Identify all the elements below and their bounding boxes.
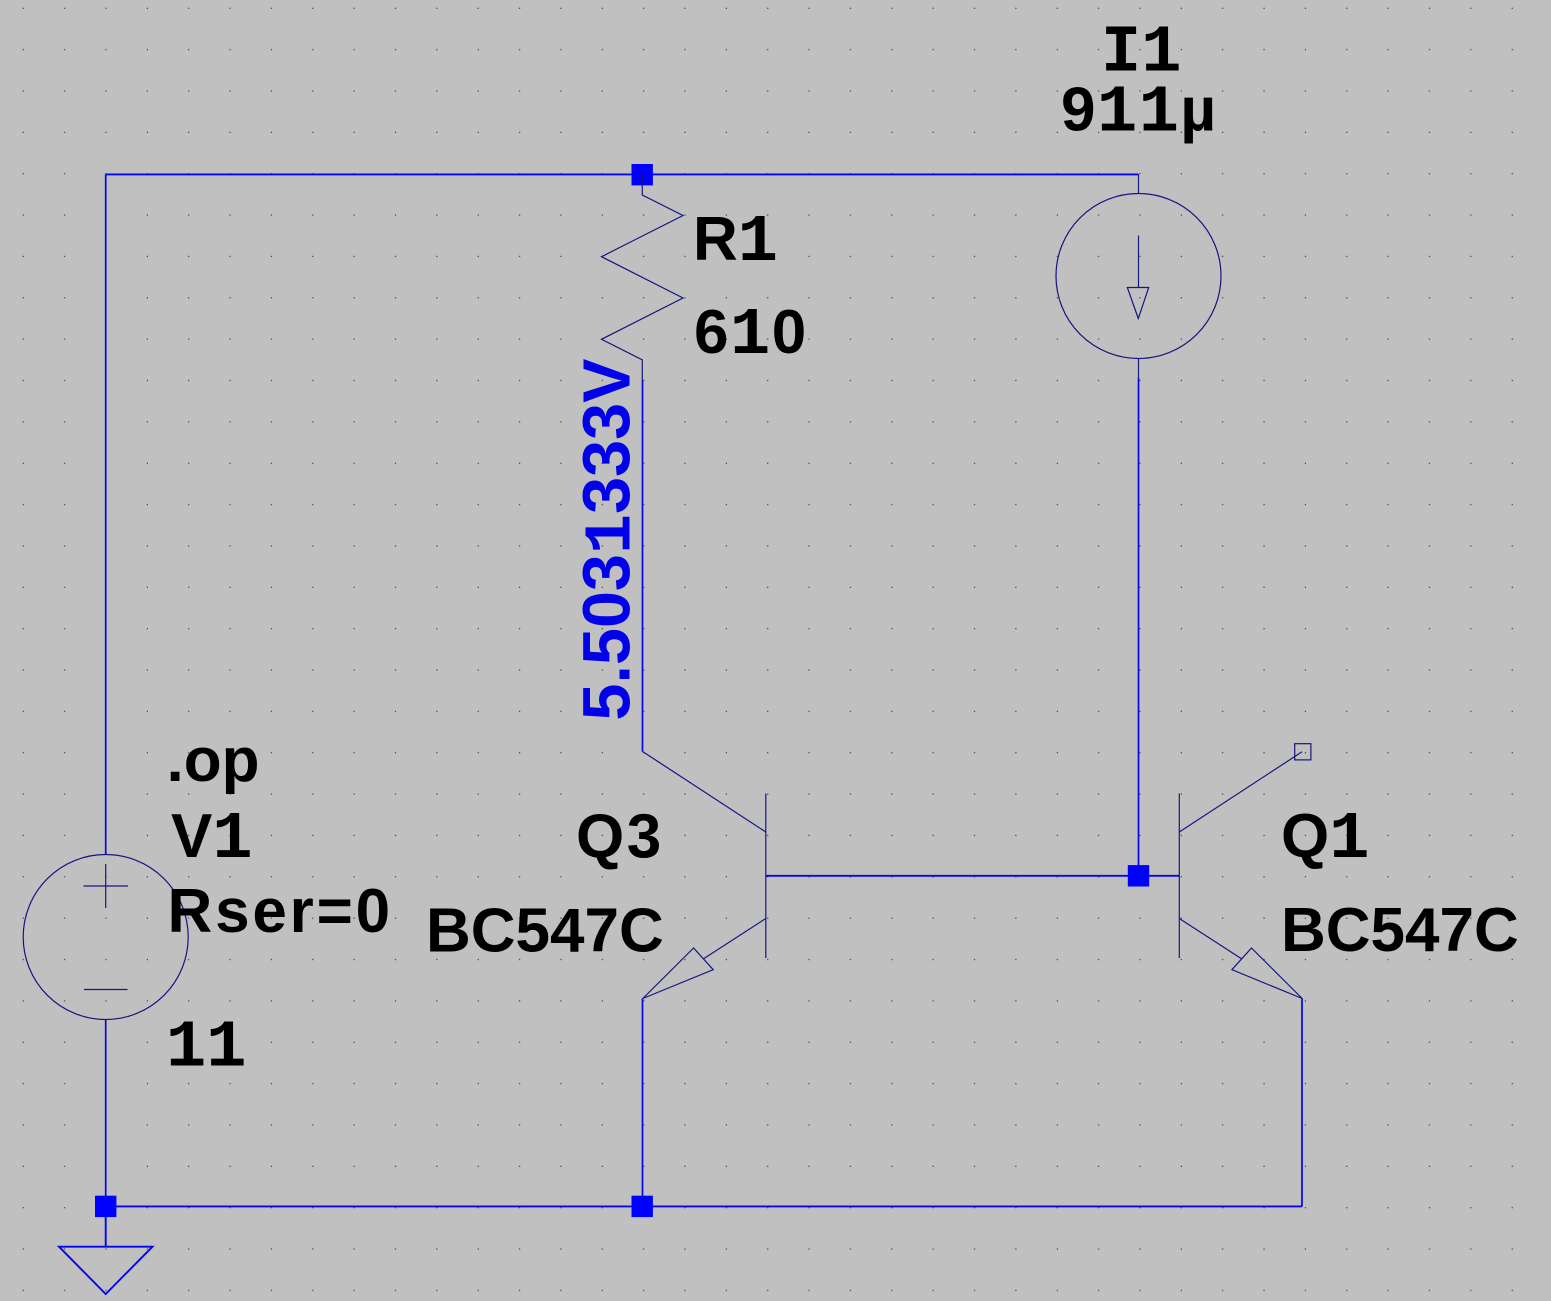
wire R1 bottom to Q3 collector: [642, 381, 644, 752]
svg-text:V1: V1: [171, 802, 253, 878]
wire Q3 emitter down: [642, 999, 644, 1207]
svg-text:Q3: Q3: [576, 803, 664, 872]
svg-text:.op: .op: [167, 726, 260, 795]
wire left vertical (to V1 top): [105, 174, 107, 854]
svg-text:BC547C: BC547C: [426, 897, 664, 966]
junction node: ground left: [95, 1196, 116, 1217]
svg-text:911µ: 911µ: [1061, 76, 1218, 152]
wire base rail Q3-Q1: [766, 875, 1180, 877]
wire bottom rail: [106, 1205, 1302, 1207]
junction node: top R1: [632, 164, 653, 185]
transistor Q3 (mirrored npn): [643, 752, 766, 999]
junction node: bottom Q3 emitter: [632, 1196, 653, 1217]
wire I1 bottom to base junction: [1138, 378, 1140, 876]
current source I1: [1056, 174, 1221, 377]
svg-text:Rser=0: Rser=0: [168, 877, 393, 946]
svg-text:5.5031333V: 5.5031333V: [571, 359, 651, 721]
resistor R1: [602, 174, 684, 380]
wire V1 bottom to ground: [105, 1020, 107, 1207]
voltage source V1: [23, 834, 188, 1040]
svg-text:11: 11: [166, 1011, 246, 1087]
svg-text:Q1: Q1: [1281, 802, 1369, 878]
wire top rail: [106, 173, 1139, 175]
transistor Q1 (npn): [1179, 744, 1311, 999]
ground: [59, 1206, 153, 1294]
junction node: base/I1: [1128, 865, 1149, 886]
svg-text:610: 610: [694, 298, 808, 374]
svg-text:BC547C: BC547C: [1281, 896, 1519, 965]
wire Q1 emitter down: [1301, 999, 1303, 1207]
svg-text:R1: R1: [693, 205, 778, 281]
